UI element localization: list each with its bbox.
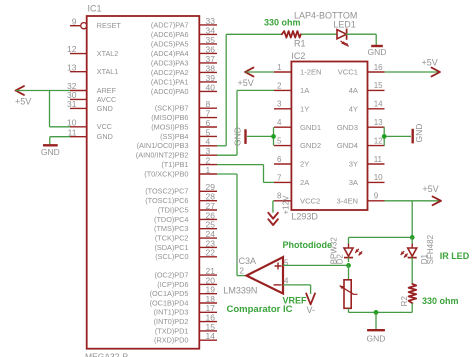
svg-text:9: 9 bbox=[374, 192, 379, 201]
svg-text:14: 14 bbox=[374, 100, 383, 109]
junction dot (bottom rail) bbox=[374, 310, 379, 315]
wire IC2 pin 8 to +12V bbox=[273, 201, 274, 213]
svg-text:11: 11 bbox=[68, 127, 77, 137]
wire IC2 pin 9 to +5V and LED branch bbox=[385, 201, 441, 238]
IC2 pin 9 3-4EN bbox=[336, 192, 384, 206]
svg-text:GND: GND bbox=[41, 147, 60, 157]
svg-text:2: 2 bbox=[277, 81, 282, 90]
svg-text:GND1: GND1 bbox=[300, 123, 321, 132]
svg-text:(ADC7)PA7: (ADC7)PA7 bbox=[151, 20, 189, 29]
IC3A value label LM339N bbox=[223, 285, 257, 295]
svg-text:10: 10 bbox=[67, 117, 77, 127]
wire shorting IC2 pins 4 and 5 bbox=[273, 127, 275, 145]
IC1 value label MEGA32-P bbox=[85, 351, 128, 357]
svg-text:2Y: 2Y bbox=[300, 160, 309, 169]
junction dot (D2 cathode / comparator +) bbox=[346, 263, 351, 268]
power arrow +5V (IC2 pin 9) bbox=[422, 184, 441, 205]
IC1 pin 4 PB3 bbox=[137, 137, 217, 151]
wire junction to right GND bar bbox=[384, 135, 411, 137]
svg-text:(SDA)PC1: (SDA)PC1 bbox=[154, 243, 188, 252]
svg-text:16: 16 bbox=[374, 63, 383, 72]
svg-text:15: 15 bbox=[374, 81, 383, 90]
svg-text:22: 22 bbox=[206, 248, 216, 258]
ground symbol (LED1) bbox=[368, 46, 387, 57]
IC1 pin 30 AVCC bbox=[67, 90, 116, 104]
power arrow +12V (double chevron down) bbox=[268, 195, 290, 225]
wire LED1 to GND bbox=[346, 34, 377, 45]
svg-text:(SS)PB4: (SS)PB4 bbox=[160, 132, 188, 141]
IC1 pin 22 PC0 bbox=[155, 248, 217, 262]
IC3A pin 4 number bbox=[284, 277, 289, 286]
svg-text:+5V: +5V bbox=[422, 184, 438, 194]
svg-text:(SCK)PB7: (SCK)PB7 bbox=[155, 104, 189, 113]
svg-text:(TOSC1)PC6: (TOSC1)PC6 bbox=[145, 196, 188, 205]
wire IC1 GND pin 11 bbox=[50, 137, 70, 145]
IR LED label bbox=[440, 251, 470, 261]
svg-text:(TDO)PC4: (TDO)PC4 bbox=[154, 215, 188, 224]
motor-driver IC2 L293D body bbox=[291, 62, 367, 211]
wire R1 to LED1 bbox=[302, 33, 338, 35]
IC3A reference label bbox=[236, 256, 256, 266]
svg-text:(ADC2)PA2: (ADC2)PA2 bbox=[151, 68, 189, 77]
svg-text:31: 31 bbox=[67, 99, 77, 109]
svg-text:Photodiode: Photodiode bbox=[283, 240, 333, 250]
svg-text:1: 1 bbox=[277, 63, 282, 72]
svg-text:40: 40 bbox=[206, 82, 216, 92]
svg-text:Comparator IC: Comparator IC bbox=[227, 304, 293, 315]
svg-text:1Y: 1Y bbox=[300, 104, 309, 113]
wire up to resistor bbox=[226, 33, 282, 35]
svg-text:IC3A: IC3A bbox=[236, 256, 256, 266]
IC1 pin 1 PB0 bbox=[144, 165, 217, 179]
wire PB2 to IC2 pin 2 (1A) bbox=[217, 90, 274, 155]
svg-text:GND: GND bbox=[367, 334, 386, 344]
svg-text:(ADC6)PA6: (ADC6)PA6 bbox=[151, 30, 189, 39]
svg-text:(INT1)PD3: (INT1)PD3 bbox=[154, 308, 189, 317]
svg-text:+12V: +12V bbox=[282, 195, 291, 215]
D1 name label (rotated) bbox=[420, 254, 429, 265]
LED1 name label bbox=[333, 20, 356, 30]
microcontroller IC1 MEGA32-P body bbox=[87, 16, 200, 349]
svg-text:13: 13 bbox=[374, 118, 383, 127]
IR LED D1 SFH482 bbox=[401, 248, 417, 284]
IC1 pin 3 PB2 bbox=[136, 146, 217, 160]
IC2 pin 4 GND1 bbox=[274, 118, 321, 132]
svg-text:(ICP)PD6: (ICP)PD6 bbox=[157, 280, 188, 289]
svg-text:MEGA32-P: MEGA32-P bbox=[85, 351, 128, 357]
svg-text:12: 12 bbox=[374, 136, 383, 145]
ground symbol (IC2 left, rotated) bbox=[233, 127, 246, 146]
svg-text:35: 35 bbox=[206, 35, 216, 45]
svg-text:(AIN1/OC0)PB3: (AIN1/OC0)PB3 bbox=[137, 141, 189, 150]
svg-text:39: 39 bbox=[206, 73, 216, 83]
svg-text:2: 2 bbox=[240, 267, 245, 276]
svg-text:VCC: VCC bbox=[97, 122, 112, 131]
IC2 pin 1 1-2EN bbox=[274, 63, 322, 77]
svg-text:(TOSC2)PC7: (TOSC2)PC7 bbox=[145, 187, 188, 196]
IC2 pin 12 GND4 bbox=[337, 136, 385, 150]
svg-text:36: 36 bbox=[206, 44, 216, 54]
Photodiode label bbox=[283, 240, 333, 250]
svg-text:1: 1 bbox=[206, 165, 211, 175]
svg-text:(ADC0)PA0: (ADC0)PA0 bbox=[151, 87, 189, 96]
IC1 pin 13 XTAL1 bbox=[67, 62, 118, 76]
svg-text:7: 7 bbox=[277, 173, 282, 182]
svg-text:4: 4 bbox=[277, 118, 282, 127]
svg-text:12: 12 bbox=[67, 44, 77, 54]
IC2 pin 2 1A bbox=[274, 81, 310, 95]
op-amp IC3A LM339N comparator bbox=[247, 257, 284, 293]
wire trimmer to bottom rail bbox=[348, 308, 350, 312]
wire +5V arrow to IC2 pin 1 bbox=[246, 71, 274, 73]
IC2 pin 10 3A bbox=[349, 173, 385, 187]
IC2 pin 3 1Y bbox=[274, 100, 309, 114]
svg-text:IR LED: IR LED bbox=[440, 251, 470, 261]
wire D2 junction to trimmer bbox=[348, 265, 350, 279]
power arrow +5V (IC2 pin 16) bbox=[422, 58, 441, 77]
svg-text:GND4: GND4 bbox=[337, 141, 358, 150]
svg-text:330 ohm: 330 ohm bbox=[422, 296, 459, 306]
svg-text:4A: 4A bbox=[349, 86, 359, 95]
IC3A pin 2 number bbox=[240, 267, 245, 276]
svg-text:R2: R2 bbox=[400, 296, 409, 307]
svg-text:(RXD)PD0: (RXD)PD0 bbox=[154, 336, 188, 345]
IC1 pin 37 PA3 bbox=[151, 54, 217, 68]
IC1 pin 17 PD3 bbox=[154, 303, 217, 317]
svg-text:14: 14 bbox=[206, 331, 216, 341]
power arrow +5V (left) bbox=[15, 86, 31, 106]
svg-text:GND2: GND2 bbox=[300, 141, 321, 150]
IC1 pin 11 GND bbox=[68, 127, 113, 141]
resistor R1 zigzag bbox=[282, 31, 301, 37]
svg-text:(ADC3)PA3: (ADC3)PA3 bbox=[151, 58, 189, 67]
svg-text:(TXD)PD1: (TXD)PD1 bbox=[155, 326, 189, 335]
IC1 pin 20 PD6 bbox=[157, 275, 217, 289]
svg-text:AREF: AREF bbox=[97, 86, 117, 95]
svg-text:(TMS)PC3: (TMS)PC3 bbox=[154, 224, 188, 233]
svg-text:XTAL2: XTAL2 bbox=[97, 49, 118, 58]
svg-text:LM339N: LM339N bbox=[223, 285, 257, 295]
IC1 pin 15 PD1 bbox=[155, 322, 217, 336]
svg-text:+5V: +5V bbox=[238, 78, 254, 88]
IC1 reference label bbox=[88, 4, 102, 14]
R2 name label (rotated) bbox=[400, 296, 409, 307]
svg-text:LED1: LED1 bbox=[333, 20, 356, 30]
svg-text:(TDI)PC5: (TDI)PC5 bbox=[158, 205, 189, 214]
svg-text:+5V: +5V bbox=[422, 58, 438, 68]
IC1 pin 28 PC6 bbox=[145, 192, 217, 206]
R1 name label bbox=[294, 39, 306, 49]
IC2 pin 16 VCC1 bbox=[338, 63, 385, 77]
svg-text:1A: 1A bbox=[300, 86, 310, 95]
svg-text:VCC1: VCC1 bbox=[338, 68, 358, 77]
svg-text:3A: 3A bbox=[349, 178, 359, 187]
svg-text:(T1)PB1: (T1)PB1 bbox=[161, 160, 188, 169]
wire PB3 to R1 bbox=[217, 34, 226, 146]
wire +5V to AREF and VCC bbox=[16, 91, 70, 127]
wire bottom rail bbox=[349, 311, 413, 313]
IC2 reference label bbox=[291, 51, 305, 61]
IC1 pin 18 PD4 bbox=[150, 294, 217, 308]
IC1 pin 14 PD0 bbox=[154, 331, 217, 345]
wire junction to left GND bar bbox=[247, 135, 274, 137]
svg-text:(INT0)PD2: (INT0)PD2 bbox=[154, 317, 189, 326]
IC1 pin 25 PC3 bbox=[154, 220, 217, 234]
IC1 pin 32 AREF bbox=[67, 81, 117, 95]
D1 value label SFH482 (rotated) bbox=[426, 234, 435, 264]
IC2 pin 14 4Y bbox=[349, 100, 385, 114]
IC2 value label L293D bbox=[291, 212, 318, 222]
junction dot (IC2 pins 13/12) bbox=[382, 134, 387, 139]
IC2 pin 13 GND3 bbox=[337, 118, 385, 132]
svg-text:3Y: 3Y bbox=[349, 160, 358, 169]
wire R2 to bottom rail bbox=[411, 303, 413, 312]
IC1 pin 19 PD5 bbox=[150, 285, 217, 299]
svg-text:GND: GND bbox=[414, 124, 424, 143]
photodiode D2 BPW32 bbox=[344, 248, 362, 262]
svg-text:(OC1B)PD4: (OC1B)PD4 bbox=[150, 298, 189, 307]
svg-text:+5V: +5V bbox=[15, 97, 31, 107]
IC2 pin 11 3Y bbox=[349, 155, 385, 169]
IC1 pin 38 PA2 bbox=[151, 63, 217, 77]
IC1 pin 31 GND bbox=[67, 99, 113, 113]
IC1 pin 36 PA4 bbox=[151, 44, 217, 58]
wire shorting IC2 pins 13 and 12 bbox=[383, 127, 385, 145]
svg-text:(ADC4)PA4: (ADC4)PA4 bbox=[151, 49, 189, 58]
IC1 pin 29 PC7 bbox=[145, 182, 217, 196]
svg-text:(MOSI)PB5: (MOSI)PB5 bbox=[151, 122, 188, 131]
IC1 pin 2 PB1 bbox=[161, 156, 217, 170]
svg-text:GND: GND bbox=[97, 104, 113, 113]
power arrow +5V (IC2 pin 1) bbox=[238, 68, 254, 88]
IC1 pin 39 PA1 bbox=[151, 73, 217, 87]
IC1 pin 21 PD7 bbox=[154, 266, 217, 280]
IC1 pin 12 XTAL2 bbox=[67, 44, 118, 58]
svg-text:3: 3 bbox=[277, 100, 282, 109]
svg-text:6: 6 bbox=[277, 155, 282, 164]
svg-text:GND: GND bbox=[97, 132, 113, 141]
wire comparator + input to D2 bbox=[283, 264, 349, 266]
svg-text:33: 33 bbox=[206, 16, 216, 26]
wire PB1 to IC2 pin 7 (2A) bbox=[217, 165, 274, 183]
svg-text:9: 9 bbox=[72, 16, 77, 26]
power arrow V- (down) bbox=[306, 293, 315, 314]
IC1 pin 33 PA7 bbox=[151, 16, 217, 30]
svg-text:34: 34 bbox=[206, 25, 216, 35]
svg-text:AVCC: AVCC bbox=[97, 95, 116, 104]
trimmer potentiometer (VREF divider) bbox=[340, 280, 357, 309]
IC2 pin 7 2A bbox=[274, 173, 310, 187]
D2 value label BPW32 (rotated) bbox=[330, 237, 339, 265]
wire IC2 pin 16 to +5V bbox=[385, 71, 440, 73]
Comparator IC label bbox=[227, 304, 293, 315]
svg-text:(MISO)PB6: (MISO)PB6 bbox=[151, 113, 188, 122]
svg-text:4Y: 4Y bbox=[349, 104, 358, 113]
resistor R2 zigzag bbox=[409, 284, 417, 303]
svg-text:XTAL1: XTAL1 bbox=[97, 67, 118, 76]
wire comparator - input to VREF bbox=[283, 285, 311, 294]
svg-text:(ADC1)PA1: (ADC1)PA1 bbox=[151, 77, 189, 86]
VREF label bbox=[283, 296, 308, 306]
IC3A pin 5 number bbox=[284, 258, 289, 267]
IC2 pin 8 VCC2 bbox=[274, 192, 320, 206]
D2 name label (rotated) bbox=[336, 254, 345, 265]
IC1 pin 35 PA5 bbox=[151, 35, 217, 49]
svg-text:3-4EN: 3-4EN bbox=[336, 196, 358, 205]
svg-text:L293D: L293D bbox=[291, 212, 318, 222]
IC1 pin 26 PC4 bbox=[154, 210, 217, 224]
IC1 pin 34 PA6 bbox=[151, 25, 217, 39]
junction dot (IC2 pins 4/5) bbox=[271, 134, 276, 139]
svg-text:(AIN0/INT2)PB2: (AIN0/INT2)PB2 bbox=[136, 151, 189, 160]
svg-text:1-2EN: 1-2EN bbox=[300, 68, 322, 77]
LAP4-BOTTOM label bbox=[294, 11, 357, 21]
IC1 pin 23 PC1 bbox=[154, 238, 217, 252]
svg-text:13: 13 bbox=[67, 62, 77, 72]
IC1 pin 27 PC5 bbox=[158, 201, 217, 215]
IC1 pin 40 PA0 bbox=[151, 82, 217, 96]
svg-text:RESET: RESET bbox=[97, 21, 122, 30]
svg-text:IC1: IC1 bbox=[88, 4, 102, 14]
svg-text:2A: 2A bbox=[300, 178, 310, 187]
svg-text:37: 37 bbox=[206, 54, 216, 64]
IC1 pin 24 PC2 bbox=[155, 229, 217, 243]
IC1 pin 10 VCC bbox=[67, 117, 112, 131]
svg-text:(ADC5)PA5: (ADC5)PA5 bbox=[151, 39, 189, 48]
svg-text:IC2: IC2 bbox=[291, 51, 305, 61]
ground symbol (bottom) bbox=[367, 330, 386, 343]
svg-text:SFH482: SFH482 bbox=[426, 234, 435, 264]
svg-text:(T0/XCK)PB0: (T0/XCK)PB0 bbox=[144, 169, 188, 178]
IC1 pin 8 PB7 bbox=[155, 99, 217, 113]
svg-text:VCC2: VCC2 bbox=[300, 196, 320, 205]
svg-text:GND: GND bbox=[233, 127, 243, 146]
svg-text:11: 11 bbox=[374, 155, 383, 164]
svg-text:GND3: GND3 bbox=[337, 123, 358, 132]
svg-text:5: 5 bbox=[277, 137, 282, 146]
IC1 pin 9 RESET bbox=[70, 16, 121, 30]
wire junction to D2 branch bbox=[349, 237, 413, 248]
IC2 pin 15 4A bbox=[349, 81, 385, 95]
330 ohm value label (top) bbox=[264, 18, 301, 28]
svg-text:R1: R1 bbox=[294, 39, 306, 49]
IC2 pin 5 GND2 bbox=[274, 137, 321, 151]
IC1 pin 16 PD2 bbox=[154, 313, 217, 327]
IC1 pin 7 PB6 bbox=[151, 109, 217, 123]
ground symbol (IC1 pin 11) bbox=[41, 145, 60, 157]
svg-text:V-: V- bbox=[307, 305, 316, 315]
wire junction to D1 anode bbox=[411, 237, 413, 248]
wire rail to GND bbox=[375, 312, 377, 329]
LED LED1 bbox=[337, 29, 349, 47]
svg-text:(TCK)PC2: (TCK)PC2 bbox=[155, 234, 189, 243]
svg-text:(OC2)PD7: (OC2)PD7 bbox=[154, 271, 188, 280]
IC2 pin 6 2Y bbox=[274, 155, 309, 169]
svg-text:(OC1A)PD5: (OC1A)PD5 bbox=[150, 289, 189, 298]
junction dot (top of D1) bbox=[410, 235, 415, 240]
IC1 pin 6 PB5 bbox=[151, 118, 217, 131]
330 ohm value label (bottom) bbox=[422, 296, 459, 306]
svg-text:38: 38 bbox=[206, 63, 216, 73]
wire PB0 to comparator output bbox=[217, 174, 248, 276]
ground symbol (IC2 right, rotated) bbox=[413, 124, 424, 144]
svg-text:10: 10 bbox=[374, 173, 383, 182]
svg-text:GND: GND bbox=[368, 47, 387, 57]
svg-text:(SCL)PC0: (SCL)PC0 bbox=[155, 252, 188, 261]
IC1 pin 5 PB4 bbox=[160, 127, 217, 141]
svg-text:VREF: VREF bbox=[283, 296, 308, 306]
